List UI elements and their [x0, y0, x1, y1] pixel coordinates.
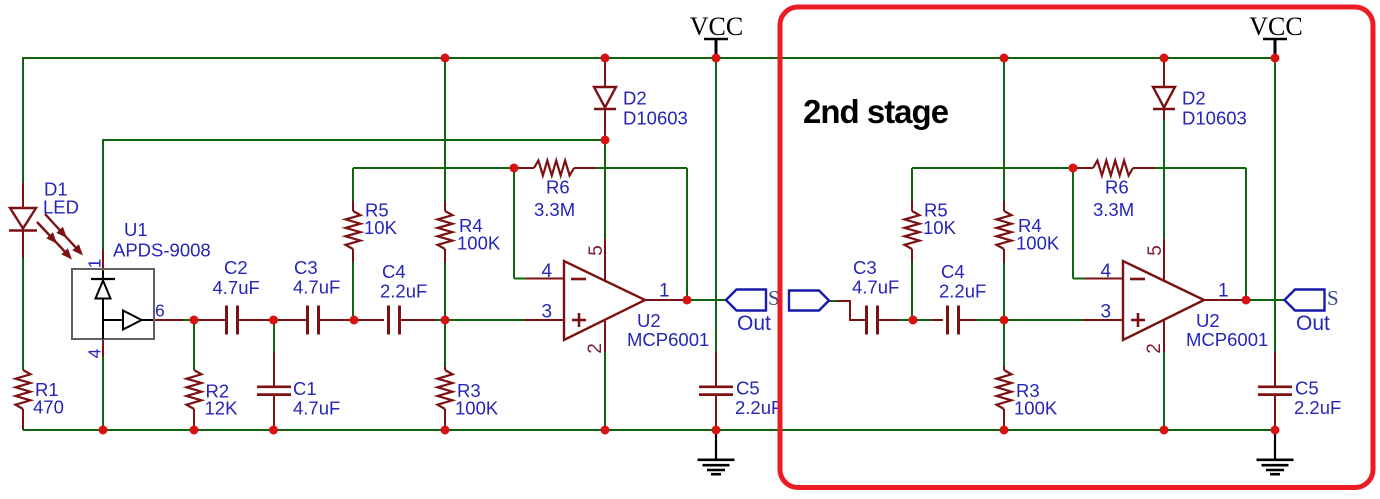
wire node B to C3 — [273, 319, 308, 321]
junction R6 left / pin4 — [510, 164, 519, 173]
svg-text:VCC: VCC — [690, 12, 743, 41]
svg-text:D10603: D10603 — [623, 108, 688, 129]
wire R2 bottom lead — [193, 409, 195, 430]
resistor R6 — [534, 161, 574, 176]
svg-text:C3: C3 — [853, 257, 877, 278]
svg-text:3.3M: 3.3M — [1093, 199, 1134, 220]
wire C3 to node C — [350, 319, 354, 321]
svg-text:100K: 100K — [1014, 398, 1058, 419]
capacitor C2 — [225, 306, 228, 335]
wire stage2 tag stub — [829, 300, 837, 302]
wire D1 anode lead — [22, 183, 24, 208]
output tag Out stage 2 — [1285, 290, 1325, 311]
wire stage2 pin4 stub — [1085, 278, 1123, 280]
wire stage2 C3 right lead — [877, 319, 899, 321]
svg-text:2.2uF: 2.2uF — [1294, 397, 1341, 418]
wire pin4 horizontal — [514, 278, 527, 280]
wire R6 right lead stub — [574, 167, 596, 169]
svg-text:C5: C5 — [1295, 378, 1319, 399]
junction stage2 rail / C5 ground — [1271, 426, 1280, 435]
wire stage2 pin2 to ground — [1163, 352, 1165, 430]
svg-text:6: 6 — [155, 301, 165, 321]
wire net U1 pin1 vertical — [102, 139, 104, 249]
svg-text:1: 1 — [85, 259, 105, 269]
wire stage2 R6 left lead — [1073, 167, 1093, 169]
wire U1 pin1 stub — [102, 249, 104, 271]
junction stage2 top rail / D2 — [1160, 54, 1169, 63]
junction stage2 R6 left / pin4 — [1069, 164, 1078, 173]
junction rail / R2 — [190, 426, 199, 435]
2nd stage red highlight box — [780, 7, 1373, 488]
capacitor C3 — [306, 306, 309, 335]
wire stage2 D2 top lead — [1163, 58, 1165, 87]
wire pin2 stub — [604, 321, 606, 352]
wire pin5 stub — [604, 239, 606, 282]
wire output to Out tag — [687, 299, 726, 301]
svg-text:U2: U2 — [1196, 310, 1220, 331]
svg-text:C1: C1 — [293, 378, 317, 399]
wire R5 lower stub — [352, 249, 354, 262]
junction rail / C5 ground — [712, 426, 721, 435]
junction stage2 rail / R3 — [1000, 426, 1009, 435]
wire D1 cathode stub — [22, 231, 24, 258]
junction stage2 top rail / VCC — [1271, 54, 1280, 63]
junction stage2 top rail / R4 — [1000, 54, 1009, 63]
svg-text:C4: C4 — [382, 261, 406, 282]
wire ground bottom rail — [23, 429, 1275, 431]
junction op-amp output — [683, 296, 692, 305]
wire R3 top lead — [444, 320, 446, 366]
svg-text:D10603: D10603 — [1182, 108, 1247, 129]
svg-text:D2: D2 — [1182, 88, 1206, 109]
capacitor C4 stage 2 — [946, 306, 949, 335]
capacitor C1 — [257, 385, 291, 388]
svg-text:VCC: VCC — [1249, 12, 1302, 41]
svg-text:4.7uF: 4.7uF — [293, 398, 340, 419]
wire stage2 C4 right lead — [959, 319, 977, 321]
svg-text:10K: 10K — [923, 217, 957, 238]
svg-text:100K: 100K — [455, 398, 499, 419]
wire R4 upper stub — [444, 201, 446, 211]
wire node C to C4 lead — [354, 319, 384, 321]
wire stage2 pin2 stub — [1163, 321, 1165, 352]
wire U1 pin1 to D2 horizontal — [102, 139, 605, 141]
wire stage2 pin4 horizontal — [1073, 278, 1086, 280]
svg-text:3: 3 — [542, 302, 553, 323]
svg-text:4: 4 — [1101, 261, 1112, 282]
wire node D to op-amp pin3 — [445, 319, 525, 321]
wire stage2 R5 upper stub — [911, 201, 913, 211]
junction rail / C1 — [269, 426, 278, 435]
wire stage2 input jog horizontal — [837, 300, 851, 302]
wire stage2 input jog vertical — [849, 300, 851, 321]
svg-text:4.7uF: 4.7uF — [293, 277, 340, 298]
resistor R4 stage 2 — [997, 211, 1012, 249]
capacitor C3 stage 2 — [865, 306, 868, 335]
wire R6 to output node — [686, 168, 688, 300]
svg-text:100K: 100K — [1016, 233, 1060, 254]
wire U1 pin4 stub — [102, 337, 104, 357]
wire op-amp output lead — [645, 299, 687, 301]
wire D2 bottom stub — [604, 110, 606, 140]
capacitor C5 — [699, 385, 733, 388]
svg-text:5: 5 — [586, 245, 607, 256]
svg-text:3: 3 — [1101, 302, 1112, 323]
svg-text:R6: R6 — [546, 177, 570, 198]
svg-text:MCP6001: MCP6001 — [1186, 329, 1268, 350]
wire C4 right lead — [400, 319, 436, 321]
wire node A to C2 — [194, 319, 227, 321]
svg-text:2: 2 — [1144, 343, 1165, 354]
junction stage2 op-amp output — [1242, 296, 1251, 305]
op-amp U2 stage 2 — [1123, 261, 1204, 340]
wire stage2 R6 right lead stub — [1133, 167, 1155, 169]
wire stage2 R3 top lead — [1003, 320, 1005, 366]
wire stage2 VCC column — [1274, 58, 1276, 352]
svg-text:S: S — [1327, 286, 1339, 310]
svg-text:1: 1 — [659, 281, 670, 302]
junction top rail / R4 — [441, 54, 450, 63]
junction rail / U1 pin4 — [99, 426, 108, 435]
wire C4 to node D — [436, 319, 445, 321]
wire stage2 C5 top lead — [1274, 352, 1276, 386]
svg-text:4.7uF: 4.7uF — [852, 277, 899, 298]
wire R5 to R6 feedback — [353, 167, 514, 169]
wire pin6 node — [183, 319, 194, 321]
wire R5 upper stub — [352, 201, 354, 211]
wire stage2 C5 bottom lead — [1274, 395, 1276, 430]
LED D1 — [10, 208, 36, 229]
resistor R5 — [346, 211, 361, 249]
svg-text:12K: 12K — [205, 398, 239, 419]
svg-text:LED: LED — [43, 197, 79, 218]
wire C3 right lead — [318, 319, 350, 321]
wire D1 to R1 — [22, 258, 24, 370]
junction D2 cathode node — [601, 136, 610, 145]
wire R3 upper stub — [444, 366, 446, 370]
svg-text:C2: C2 — [224, 257, 248, 278]
output tag Out stage 1 — [726, 290, 766, 311]
wire pin2 to ground — [604, 352, 606, 430]
junction stage2 rail / pin2 — [1160, 426, 1169, 435]
svg-text:R6: R6 — [1105, 177, 1129, 198]
resistor R2 — [187, 370, 202, 409]
diode D2 — [594, 87, 616, 108]
input tag stage 2 — [789, 291, 829, 311]
wire VCC column — [715, 58, 717, 352]
junction pin6 node — [190, 316, 199, 325]
svg-text:2.2uF: 2.2uF — [735, 397, 782, 418]
resistor R3 stage 2 — [997, 370, 1012, 409]
wire stage2 C3 to node — [899, 319, 913, 321]
wire stage2 D2 bottom stub — [1163, 110, 1165, 120]
wire stage2 C4 to node D — [977, 319, 1004, 321]
op-amp U2 — [564, 261, 645, 340]
wire R3 bottom lead — [444, 409, 446, 430]
svg-text:2.2uF: 2.2uF — [380, 281, 427, 302]
wire stage2 output to Out tag — [1246, 299, 1284, 301]
svg-text:100K: 100K — [457, 233, 501, 254]
wire stage2 R5 lower stub — [911, 249, 913, 262]
resistor R3 — [438, 370, 453, 409]
wire R2 top lead — [193, 320, 195, 370]
wire stage2 R4 to node D — [1003, 263, 1005, 320]
wire stage2 R3 bottom lead — [1003, 409, 1005, 430]
wire U1 pin4 to ground — [102, 357, 104, 430]
wire R4 to node D — [444, 263, 446, 320]
U1 internal buffer amp — [103, 319, 123, 321]
svg-text:4: 4 — [542, 261, 553, 282]
wire R5 top corner — [352, 168, 354, 201]
junction rail / pin2 — [601, 426, 610, 435]
wire stage2 jog to C3 — [850, 319, 866, 321]
wire pin4 stub — [526, 278, 564, 280]
wire stage2 R5 to node — [911, 262, 913, 320]
wire D2 top lead — [604, 58, 606, 87]
U1 internal photodiode — [102, 271, 104, 280]
IC U1 APDS-9008 box — [72, 269, 154, 339]
resistor R6 stage 2 — [1093, 161, 1133, 176]
wire stage2 pin3 stub — [1083, 319, 1123, 321]
junction C4 / R4 / R3 node — [441, 316, 450, 325]
resistor R4 — [438, 211, 453, 249]
svg-text:2.2uF: 2.2uF — [939, 281, 986, 302]
svg-text:APDS-9008: APDS-9008 — [113, 240, 211, 261]
svg-text:C5: C5 — [736, 378, 760, 399]
wire R6 to feedback corner — [596, 167, 687, 169]
wire stage2 output lead — [1204, 299, 1246, 301]
svg-text:3.3M: 3.3M — [534, 199, 575, 220]
wire stage2 R4 upper stub — [1003, 201, 1005, 211]
ground symbol stage 2 — [1274, 430, 1276, 459]
wire stage2 pin5 stub — [1163, 239, 1165, 282]
wire stage2 R3 upper stub — [1003, 366, 1005, 370]
svg-text:1: 1 — [1218, 281, 1229, 302]
wire C2 to node B — [237, 319, 274, 321]
wire feedback to pin4 vertical — [513, 168, 515, 279]
wire R4 lower stub — [444, 249, 446, 263]
wire R6 left lead — [514, 167, 534, 169]
wire op-amp pin3 stub — [524, 319, 564, 321]
wire left VCC drop to D1 — [22, 57, 24, 183]
svg-text:4.7uF: 4.7uF — [213, 277, 260, 298]
wire stage2 R5 to R6 feedback — [912, 167, 1073, 169]
wire stage2 R6 to feedback corner — [1155, 167, 1246, 169]
junction stage2 C3 / R5 node — [909, 316, 918, 325]
wire R5 to node C — [352, 262, 354, 320]
resistor R5 stage 2 — [905, 211, 920, 249]
wire stage2 R6 to output node — [1245, 168, 1247, 300]
junction top rail / VCC — [712, 54, 721, 63]
wire C1 top lead — [273, 320, 275, 352]
svg-text:MCP6001: MCP6001 — [627, 329, 709, 350]
svg-text:Out: Out — [1296, 312, 1330, 335]
junction C2-C3 node — [269, 316, 278, 325]
junction top rail / D2 — [601, 54, 610, 63]
wire stage2 pin5 net — [1163, 120, 1165, 239]
svg-text:2nd stage: 2nd stage — [803, 93, 949, 130]
wire stage2 C4 left lead — [931, 319, 943, 321]
wire C1 upper stub — [273, 352, 275, 386]
wire C1 bottom lead — [273, 395, 275, 430]
svg-text:4: 4 — [85, 348, 105, 358]
junction rail / R3 — [441, 426, 450, 435]
svg-text:D2: D2 — [623, 88, 647, 109]
svg-text:470: 470 — [33, 397, 64, 418]
svg-text:10K: 10K — [364, 217, 398, 238]
wire R4 top lead — [444, 57, 446, 201]
wire VCC top rail — [23, 57, 1275, 59]
svg-text:2: 2 — [585, 343, 606, 354]
diode D2 stage 2 — [1153, 87, 1175, 108]
svg-text:U2: U2 — [637, 310, 661, 331]
wire pin5 net — [604, 140, 606, 239]
ground symbol stage 1 — [715, 430, 717, 459]
wire stage2 R4 lower stub — [1003, 249, 1005, 263]
wire U1 pin6 stub — [152, 319, 183, 321]
wire stage2 feedback to pin4 — [1072, 168, 1074, 279]
wire stage2 R5 top corner — [911, 168, 913, 201]
wire R1 bottom lead — [22, 409, 24, 430]
svg-text:Out: Out — [737, 312, 771, 335]
LED D1 light arrows — [45, 214, 79, 251]
wire stage2 R4 top lead — [1003, 57, 1005, 201]
capacitor C5 stage 2 — [1258, 385, 1292, 388]
wire stage2 node D to pin3 — [1004, 319, 1084, 321]
capacitor C4 — [387, 306, 390, 335]
wire C5 top lead — [715, 352, 717, 386]
wire stage2 node to C4 — [913, 319, 931, 321]
resistor R1 — [16, 370, 31, 409]
svg-text:5: 5 — [1145, 245, 1166, 256]
junction stage2 C4 / R4 / R3 node — [1000, 316, 1009, 325]
svg-text:U1: U1 — [124, 219, 148, 240]
svg-text:C4: C4 — [941, 261, 965, 282]
junction C3-C4 / R5 node — [350, 316, 359, 325]
svg-text:C3: C3 — [294, 257, 318, 278]
wire C5 bottom lead — [715, 395, 717, 430]
